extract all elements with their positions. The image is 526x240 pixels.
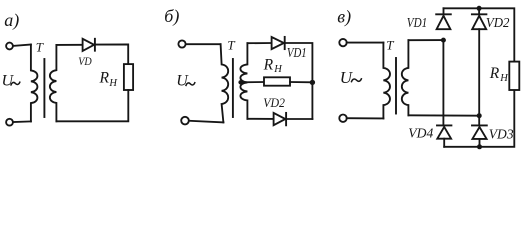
svg-text:Н: Н xyxy=(273,64,283,75)
label RH xyxy=(99,69,119,89)
wire VD2 to right rail xyxy=(286,118,312,120)
wire input bottom xyxy=(13,120,31,123)
wire diode to load xyxy=(95,44,128,64)
svg-text:R: R xyxy=(489,65,500,82)
diode VD2 triangle xyxy=(274,113,286,125)
diode VD2 stub to rail xyxy=(478,8,480,14)
diode VD2 cathode bar xyxy=(285,113,287,125)
terminal (bottom input) xyxy=(181,117,189,125)
node A junction dot xyxy=(441,38,446,43)
wire input top xyxy=(186,43,221,45)
wire load bottom loop xyxy=(56,90,128,121)
svg-text:б): б) xyxy=(164,6,179,27)
left bridge branch wire xyxy=(442,40,444,125)
svg-text:T: T xyxy=(227,37,235,52)
svg-text:VD1: VD1 xyxy=(407,15,427,30)
diode VD4 cathode bar xyxy=(437,124,451,126)
transformer T1 secondary winding xyxy=(50,45,57,121)
terminal (top input) xyxy=(339,39,346,46)
diode VD1 cathode bar xyxy=(284,37,286,49)
svg-text:T: T xyxy=(36,39,44,54)
transformer T3 primary winding xyxy=(383,43,390,119)
wire input bottom xyxy=(189,121,223,123)
diode VD cathode bar xyxy=(94,39,96,51)
diode VD triangle xyxy=(83,39,95,51)
label U~ xyxy=(176,72,189,89)
resistor RH (load) xyxy=(124,64,133,90)
svg-text:R: R xyxy=(263,57,274,74)
bottom rail to diode VD2 xyxy=(247,118,273,120)
svg-text:VD2: VD2 xyxy=(263,95,285,110)
transformer T1 primary winding xyxy=(31,45,38,122)
node B junction dot xyxy=(477,113,482,118)
wire secondary top to diode xyxy=(56,44,82,46)
resistor RH (load) xyxy=(264,77,290,85)
wire input top xyxy=(13,45,31,46)
diode VD3 triangle xyxy=(472,127,486,139)
svg-text:в): в) xyxy=(337,7,351,28)
svg-text:VD4: VD4 xyxy=(408,126,433,141)
wire RH to right rail xyxy=(290,81,312,83)
diode VD3 stub to bottom rail xyxy=(479,139,481,147)
center tap junction dot xyxy=(238,80,242,84)
terminal (top input) xyxy=(178,40,185,47)
transformer T2 primary winding xyxy=(221,44,229,122)
label U~ xyxy=(2,72,15,89)
right bridge branch wire xyxy=(478,29,480,125)
junction dot above VD2 xyxy=(477,6,482,11)
diode VD1 triangle xyxy=(272,37,284,49)
svg-text:а): а) xyxy=(4,10,19,31)
terminal (bottom input) xyxy=(339,115,346,122)
wire input top xyxy=(347,42,384,44)
wire secondary top to node A xyxy=(408,39,443,41)
svg-text:U: U xyxy=(340,68,354,87)
svg-text:Н: Н xyxy=(499,73,509,84)
svg-text:Н: Н xyxy=(108,78,118,89)
diode VD3 cathode bar xyxy=(472,124,487,126)
diode VD2 cathode bar xyxy=(472,13,487,15)
label RH xyxy=(263,57,284,76)
transformer T2 secondary winding (center-tapped) xyxy=(240,43,247,119)
diode VD1 stub to rail xyxy=(443,8,445,14)
label RH xyxy=(489,65,510,84)
diode VD4 triangle xyxy=(437,127,451,139)
svg-text:VD1: VD1 xyxy=(287,46,307,61)
svg-text:R: R xyxy=(99,69,110,86)
svg-text:T: T xyxy=(386,37,394,52)
center tap wire xyxy=(241,81,264,83)
diode VD1 cathode bar xyxy=(436,13,451,15)
wire secondary bottom to node B (crosses branch) xyxy=(408,114,479,116)
transformer core xyxy=(395,58,397,114)
bottom rail to load xyxy=(444,90,514,147)
svg-text:VD: VD xyxy=(78,54,92,68)
junction dot bottom rail xyxy=(477,144,482,149)
transformer core xyxy=(43,59,45,117)
wire VD1 to right rail down xyxy=(285,43,313,119)
transformer core xyxy=(232,59,234,117)
top rail to load xyxy=(444,8,515,61)
wire input bottom xyxy=(347,117,384,119)
svg-text:U: U xyxy=(2,72,15,89)
svg-text:VD3: VD3 xyxy=(489,126,514,141)
diode VD4 stub to bottom rail xyxy=(443,139,445,147)
terminal (bottom input) xyxy=(6,119,13,126)
junction dot right rail xyxy=(310,80,315,85)
terminal (top input) xyxy=(6,43,13,50)
top rail to diode VD1 xyxy=(247,42,271,44)
diode VD2 triangle xyxy=(472,16,486,29)
svg-text:VD2: VD2 xyxy=(486,15,510,30)
svg-text:U: U xyxy=(176,72,189,89)
transformer T3 secondary winding xyxy=(402,40,409,115)
label U~ xyxy=(340,68,354,87)
diode VD1 triangle xyxy=(437,16,451,29)
resistor RH (load) xyxy=(509,62,519,90)
